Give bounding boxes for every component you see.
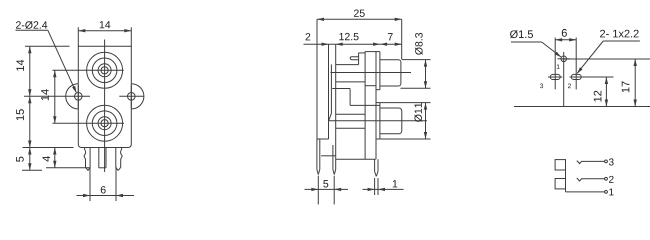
lower jack axis line (329, 120, 427, 122)
dim 1 side dimension line (363, 188, 404, 191)
front view right snap leg (116, 148, 122, 171)
dim 1 side extension lines (375, 178, 378, 195)
dim 14 top dimension line (78, 29, 131, 32)
dim 6 label (101, 186, 106, 193)
upper RCA jack circles (87, 52, 123, 88)
leader 2-dia2.4 (16, 30, 77, 93)
schematic ground bus wire (565, 170, 567, 192)
side view upper flange disc (376, 52, 380, 90)
pcb pad 2 crosshair (570, 38, 614, 90)
dim 6 dimension line (77, 194, 135, 197)
dim 6 extension lines (90, 167, 116, 202)
dim 15 left label (16, 109, 24, 120)
side view lower barrel (380, 108, 402, 134)
left chain extension line leg tip (22, 169, 42, 171)
inner chain dim 4 (53, 148, 56, 168)
upper jack horizontal centerline (53, 69, 124, 71)
left chain extension line bottom body (23, 147, 74, 149)
dim row2 line and arrows (304, 43, 402, 46)
schematic jack body 1 (555, 160, 565, 170)
dim 25 label (354, 9, 365, 16)
dim dia8.3 dimension line (424, 60, 427, 89)
side view bracket back edge (329, 64, 332, 121)
pcb dim 17 dimension line (634, 59, 637, 107)
dim dia11 label (414, 103, 422, 122)
side view body bottom edge (336, 158, 376, 160)
dim 2 label (306, 33, 311, 40)
right mounting hole 2.4mm (128, 93, 136, 101)
pcb dim 12 dimension line (605, 77, 608, 107)
label 2-dia2.4 (16, 21, 47, 29)
pcb pad 3 crosshair (548, 38, 562, 90)
dim dia8.3 extension lines (401, 60, 431, 89)
side view upper barrel (380, 60, 401, 86)
side view top small pin (350, 57, 358, 60)
schematic terminal 3 (605, 158, 614, 165)
dim 5 side label (323, 180, 328, 187)
side view internal step (332, 89, 379, 106)
upper jack axis line (331, 72, 412, 74)
pad number 3 (540, 84, 543, 89)
side view body top edge (336, 64, 359, 66)
front view body outline (78, 46, 131, 147)
side view internal lines (336, 82, 376, 128)
side view bracket front face (328, 44, 330, 139)
row2 extension line right (401, 19, 403, 59)
side view body front face (335, 44, 337, 159)
right ear crosshair (119, 85, 143, 108)
side view front column (365, 52, 380, 160)
dim 14 inner label (41, 89, 49, 100)
inner chain dim 14 (53, 70, 56, 123)
schematic contact 2 (577, 178, 605, 181)
dim 14 top label (100, 21, 111, 28)
dim 7 label (388, 33, 393, 40)
pcb bottom edge line (514, 106, 650, 108)
dim dia11 extension lines (380, 103, 431, 139)
pcb dim 17 label (622, 81, 630, 92)
pcb top edge line (561, 58, 650, 60)
pad number 2 (568, 84, 571, 89)
dim 12.5 label (339, 33, 358, 40)
dim 1 side label (393, 180, 398, 187)
side view left contact pin (317, 139, 320, 175)
lower RCA jack circles (87, 105, 123, 141)
pcb dim 6 dimension line (555, 38, 576, 41)
dim 14 top extension lines (78, 27, 131, 46)
schematic terminal 1 (605, 189, 614, 196)
dim 4 inner label (43, 156, 51, 162)
front view center ground pin (99, 148, 106, 168)
leader 2-1x2.2 (577, 41, 640, 74)
left ear crosshair (24, 85, 90, 108)
dim 14 left label (16, 60, 24, 71)
side view snap leg (375, 159, 378, 176)
schematic wire 1 (566, 191, 605, 193)
dim 25 dimension line (317, 18, 402, 21)
front view right mounting ear (131, 84, 144, 109)
dim dia11 dimension line (424, 103, 427, 139)
side view bracket foot (317, 139, 336, 156)
side view left pin outer edge and ext line (316, 19, 318, 139)
left mounting hole 2.4mm (75, 93, 83, 101)
dim 5 side extension lines (318, 176, 334, 205)
side view top contact tab (359, 53, 366, 65)
dim 5 side dimension line (305, 188, 349, 191)
pcb pad 2 (571, 74, 581, 79)
vertical centerline (104, 40, 106, 173)
left chain extension line top (25, 45, 70, 47)
pcb dim 6 label (562, 29, 567, 37)
pcb center hole 1.5mm (561, 56, 567, 62)
front view left mounting ear (66, 84, 79, 109)
label dia1.5 (510, 30, 533, 38)
inner chain extension line pin bottom (46, 167, 90, 169)
left chain arrows (28, 46, 31, 170)
leader dia1.5 (511, 42, 561, 57)
pcb center hole centerline (558, 52, 571, 107)
dim dia8.3 label (415, 33, 423, 55)
pad number 1 (557, 64, 560, 68)
left chain dimension line (29, 46, 31, 170)
side view lower flange disc (376, 103, 380, 139)
pcb pad 3 (550, 74, 560, 79)
dim 5 left label (16, 157, 24, 162)
schematic jack body 2 (555, 179, 565, 189)
label 2-1x2.2 (600, 30, 639, 38)
front view left snap leg (84, 148, 90, 171)
side view right contact pin (333, 145, 336, 175)
pcb dim 12 label (594, 91, 602, 102)
schematic contact 3 (577, 161, 605, 164)
lower jack horizontal centerline (53, 122, 125, 124)
schematic terminal 2 (605, 176, 614, 183)
